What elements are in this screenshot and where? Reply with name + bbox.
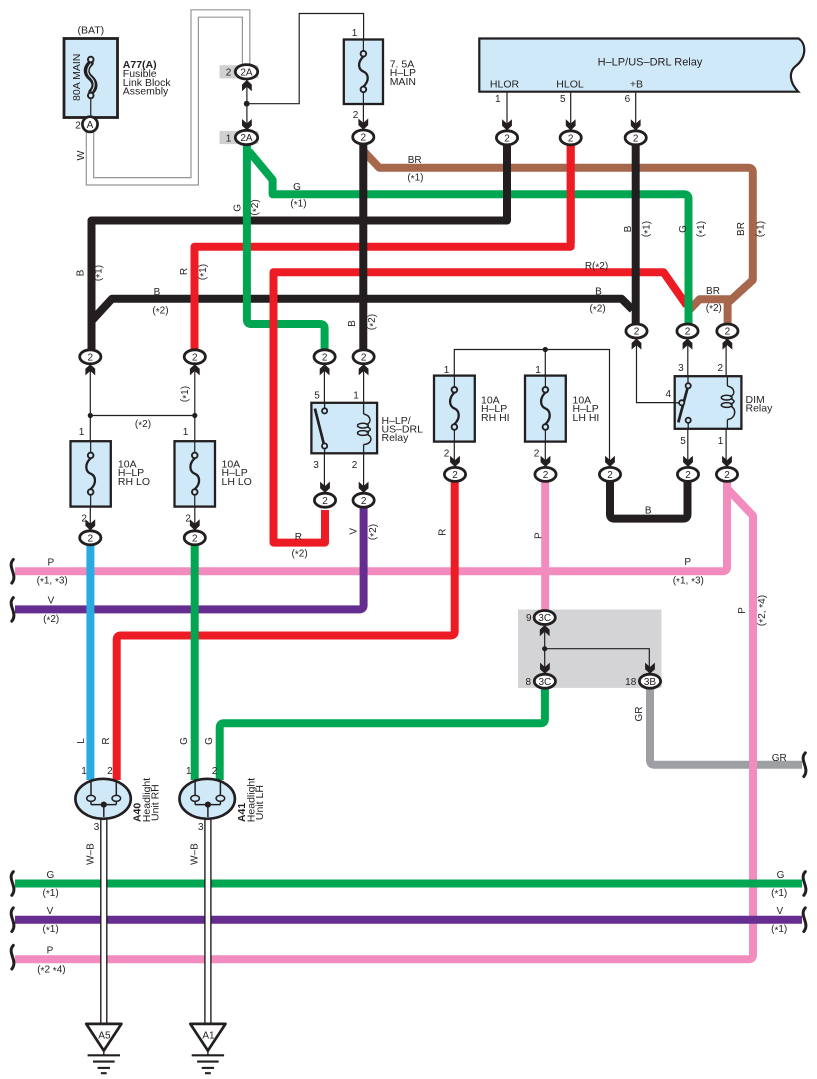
arrow down 18-3B: [645, 663, 655, 674]
svg-text:(*1): (*1): [180, 386, 192, 402]
svg-text:5: 5: [314, 391, 320, 402]
svg-text:GR: GR: [634, 707, 645, 722]
wire DIM relay pin5 lead: [687, 429, 689, 467]
svg-text:B: B: [623, 225, 634, 232]
arrow up relay pin5 col: [320, 364, 330, 375]
svg-text:2: 2: [88, 533, 94, 544]
wire B (*2) branch: [92, 299, 633, 321]
wire L (blue) RH LO to A40 pin1: [86, 544, 94, 780]
svg-text:2: 2: [185, 513, 191, 524]
svg-text:80A MAIN: 80A MAIN: [71, 54, 83, 101]
node HI fuses junction: [543, 347, 548, 352]
svg-text:(*1): (*1): [771, 888, 787, 900]
connector 2 relay pin5: [314, 350, 335, 364]
svg-text:(*2): (*2): [135, 419, 151, 431]
connector 2 +B: [625, 131, 646, 145]
wire V (*2) rail: [15, 505, 364, 609]
svg-text:(*1, *3): (*1, *3): [37, 575, 68, 587]
break G (*1) left: [11, 872, 14, 896]
connector 18-3B: [639, 674, 660, 688]
arrow down relay pin2 out: [359, 482, 369, 493]
svg-text:2: 2: [718, 363, 724, 374]
svg-text:2: 2: [504, 133, 510, 144]
wire G LH LO to A41 pin1: [191, 544, 199, 780]
arrow down DIM pin1: [722, 456, 732, 467]
break P (*2,*4) left: [11, 945, 14, 969]
svg-text:2: 2: [361, 352, 367, 363]
svg-text:B: B: [595, 286, 602, 297]
svg-text:2: 2: [352, 460, 358, 471]
svg-text:(*1): (*1): [641, 221, 653, 237]
connector 2 DIM pin4 feed: [626, 324, 647, 338]
svg-text:MAIN: MAIN: [390, 76, 416, 88]
svg-text:(*1): (*1): [197, 264, 209, 280]
svg-text:2: 2: [322, 352, 328, 363]
wire HI fuses top link: [454, 350, 609, 468]
svg-text:3B: 3B: [644, 677, 657, 688]
svg-text:2: 2: [192, 352, 198, 363]
svg-text:2: 2: [353, 110, 359, 121]
svg-text:1: 1: [444, 365, 450, 376]
svg-text:2: 2: [361, 133, 367, 144]
break V (*1) left: [11, 908, 14, 932]
wire P (*1,*3) rail: [15, 480, 727, 571]
svg-text:BR: BR: [736, 222, 747, 236]
connector 2 relay pin3 out: [314, 493, 335, 507]
svg-text:6: 6: [625, 94, 631, 105]
headlight unit A40 RH: [75, 779, 130, 819]
svg-text:(*1): (*1): [43, 888, 59, 900]
svg-text:2: 2: [568, 133, 574, 144]
arrow down to conn HLOR: [502, 119, 512, 130]
svg-text:1: 1: [186, 766, 192, 777]
wire LH HI fuse pin2 lead: [544, 442, 546, 467]
svg-text:2: 2: [534, 449, 540, 460]
wire BR (*1) main: [364, 152, 753, 328]
svg-text:B: B: [76, 269, 87, 276]
wire W-B headlight RH ground: [100, 810, 107, 1024]
arrow down RH HI out: [450, 456, 460, 467]
wire P (*2,*4) branch: [15, 490, 753, 959]
svg-text:RH HI: RH HI: [481, 412, 510, 424]
node J/B junction: [542, 646, 547, 651]
svg-text:8: 8: [525, 677, 531, 688]
svg-text:A5: A5: [98, 1031, 111, 1042]
svg-text:(*1): (*1): [696, 221, 708, 237]
svg-text:(*1): (*1): [290, 199, 306, 211]
relay block H-LP/US-DRL Relay (top): [479, 39, 804, 92]
arrow down RH LO out: [85, 519, 95, 530]
svg-text:V: V: [47, 906, 54, 917]
wire B HLOR overlay: [503, 140, 511, 217]
connector 2 RH HI out: [444, 467, 465, 481]
svg-text:R: R: [179, 268, 190, 275]
svg-text:V: V: [349, 528, 360, 535]
connector 2A lower: [235, 130, 257, 144]
wire B DIM ground link: [610, 480, 688, 519]
wire R RH HI to A40: [117, 480, 455, 780]
wire DIM relay pin2 lead: [725, 338, 727, 376]
svg-text:Relay: Relay: [382, 432, 410, 444]
svg-text:Unit LH: Unit LH: [254, 785, 266, 820]
svg-text:3: 3: [313, 460, 319, 471]
svg-text:G: G: [678, 225, 689, 233]
arrow down DIM gnd: [605, 456, 615, 467]
svg-text:HLOR: HLOR: [490, 79, 520, 91]
svg-text:3: 3: [94, 822, 100, 833]
svg-text:2: 2: [634, 327, 640, 338]
wire LH LO fuse pin1 lead: [194, 364, 196, 441]
arrow up relay pin1 col: [359, 364, 369, 375]
wire US-DRL relay pin2 lead: [363, 453, 365, 493]
svg-text:(*2): (*2): [367, 314, 379, 330]
svg-text:R: R: [437, 529, 448, 536]
break P (*1,*3) left: [11, 560, 14, 584]
connector 2 relay pin2 out: [353, 493, 374, 507]
arrow up DIM pin3 col: [683, 338, 693, 349]
connector 1-2A label bg: [220, 131, 259, 144]
connector A of A77: [82, 117, 97, 132]
connector 2 HLOR: [496, 131, 517, 145]
svg-text:2: 2: [724, 470, 730, 481]
svg-text:P: P: [533, 532, 544, 539]
node 2A junction: [244, 101, 250, 107]
arrow up to 2A upper: [242, 80, 252, 91]
svg-text:(*2): (*2): [292, 548, 308, 560]
svg-text:1: 1: [352, 28, 358, 39]
wire RH LO fuse pin1 lead: [89, 364, 91, 441]
svg-text:2A: 2A: [240, 133, 253, 144]
wire LH LO fuse pin2 lead: [194, 507, 196, 531]
svg-text:1: 1: [226, 133, 232, 144]
arrow down LH LO out: [190, 519, 200, 530]
connector 2 col RH LO: [80, 350, 101, 364]
svg-text:R(*2): R(*2): [585, 261, 608, 273]
wire relay pin 5 lead: [570, 92, 572, 131]
arrow down to conn 7.5A: [358, 119, 368, 130]
svg-text:1: 1: [353, 391, 359, 402]
svg-text:LH LO: LH LO: [222, 476, 252, 488]
svg-text:G: G: [777, 870, 785, 881]
svg-text:2: 2: [88, 352, 94, 363]
fuse 10A H-LP LH LO: [175, 441, 216, 506]
svg-text:1: 1: [535, 365, 541, 376]
svg-text:(*1): (*1): [43, 924, 59, 936]
svg-text:B: B: [347, 320, 358, 327]
svg-text:(*2, *4): (*2, *4): [756, 595, 768, 626]
arrow up DIM pin4 col: [632, 338, 642, 349]
connector 2 DIM pin1: [716, 467, 737, 481]
wire GR: [650, 687, 802, 765]
svg-text:2: 2: [107, 766, 113, 777]
wire G 8-3C to A41 pin2: [220, 687, 545, 780]
svg-text:W: W: [75, 150, 87, 160]
node LO fuses junction: [88, 413, 93, 418]
junction block J/B (gray box): [518, 610, 662, 688]
arrow down to conn +B: [631, 119, 641, 130]
svg-text:2: 2: [543, 470, 549, 481]
svg-text:4: 4: [666, 389, 672, 400]
connector 2 of 7.5A fuse: [353, 130, 374, 144]
wire DIM relay pin1 lead: [725, 429, 727, 467]
wire R HLOL overlay: [567, 140, 575, 243]
svg-text:H–LP/US–DRL Relay: H–LP/US–DRL Relay: [598, 56, 703, 68]
svg-text:W–B: W–B: [190, 843, 201, 865]
svg-text:2: 2: [685, 327, 691, 338]
svg-text:B: B: [645, 506, 652, 517]
svg-text:RH LO: RH LO: [118, 476, 150, 488]
svg-text:(BAT): (BAT): [77, 25, 104, 37]
svg-text:(*2 *4): (*2 *4): [37, 964, 65, 976]
svg-text:(*1): (*1): [93, 265, 105, 281]
wire US-DRL relay pin5 lead: [323, 364, 325, 403]
wire G (*1) branch: [249, 151, 689, 327]
connector 2 HLOL: [560, 131, 581, 145]
svg-text:Unit RH: Unit RH: [150, 784, 162, 821]
svg-text:G: G: [232, 204, 243, 212]
arrow up RH LO col: [85, 364, 95, 375]
wire US-DRL relay pin1 lead: [363, 364, 365, 403]
svg-text:1: 1: [81, 766, 87, 777]
svg-text:(*1): (*1): [755, 221, 767, 237]
wire W (white) from A77 pin A to connector 2A: [90, 14, 246, 182]
svg-text:W–B: W–B: [86, 843, 97, 865]
wire G (*1) bottom rail: [15, 880, 802, 888]
svg-text:3: 3: [198, 822, 204, 833]
svg-text:P: P: [684, 557, 691, 568]
svg-text:R: R: [101, 737, 112, 744]
svg-text:3C: 3C: [539, 677, 552, 688]
wire relay pin 1 lead: [506, 92, 508, 131]
fuse 10A H-LP LH HI: [525, 376, 566, 442]
svg-text:(*2): (*2): [250, 199, 262, 215]
svg-text:G: G: [293, 182, 301, 193]
wire 7.5A fuse internals: [362, 40, 364, 131]
wire R (*2): [274, 272, 687, 542]
wire node to 7.5A fuse pin 1: [247, 14, 364, 104]
svg-text:3: 3: [678, 363, 684, 374]
arrow down relay pin3 out: [320, 482, 330, 493]
ground A1: [190, 1024, 225, 1051]
connector 2A upper: [235, 65, 257, 79]
wire RH LO fuse pin2 lead: [89, 507, 91, 531]
svg-text:5: 5: [680, 436, 686, 447]
wire DIM relay pin3 lead: [687, 338, 689, 376]
fusible link block A77(A): [64, 39, 118, 118]
wire LO fuses link: [90, 415, 195, 417]
connector 8-3C: [534, 674, 555, 688]
arrow up DIM pin2 col: [723, 338, 733, 349]
arrow down to 2A lower: [242, 119, 252, 130]
wire B (*1) HLOR to RH LO: [92, 140, 508, 352]
svg-text:18: 18: [625, 677, 637, 688]
connector 2 LH LO out: [184, 531, 205, 545]
fuse 10A H-LP RH HI: [434, 376, 475, 442]
headlight unit A41 LH: [180, 779, 235, 819]
connector 2 DIM pin2 feed: [717, 324, 738, 338]
connector 2 DIM gnd: [599, 467, 620, 481]
svg-text:Relay: Relay: [746, 403, 774, 415]
svg-text:2: 2: [226, 68, 232, 79]
break V (*2) left: [11, 598, 14, 622]
break V (*1) right: [803, 908, 806, 932]
svg-text:2: 2: [322, 496, 328, 507]
connector 2-2A label bg: [220, 65, 259, 78]
svg-text:(*1): (*1): [407, 173, 423, 185]
svg-text:HLOL: HLOL: [556, 79, 584, 91]
arrow up LH LO col: [190, 364, 200, 375]
fuse 10A H-LP RH LO: [71, 441, 111, 506]
ground A5: [86, 1024, 121, 1051]
svg-text:(*2): (*2): [590, 304, 606, 316]
svg-text:L: L: [76, 738, 87, 744]
arrow down to conn HLOL: [566, 119, 576, 130]
break GR right: [803, 753, 806, 777]
svg-text:(*1): (*1): [771, 924, 787, 936]
svg-text:G: G: [47, 870, 55, 881]
svg-text:2: 2: [725, 327, 731, 338]
svg-text:LH HI: LH HI: [573, 412, 600, 424]
svg-text:2: 2: [81, 513, 87, 524]
svg-text:Assembly: Assembly: [123, 86, 169, 98]
svg-text:B: B: [154, 287, 161, 298]
svg-text:3C: 3C: [538, 613, 551, 624]
arrow down DIM pin5: [683, 456, 693, 467]
connector 2 DIM pin5: [677, 467, 698, 481]
svg-text:1: 1: [718, 436, 724, 447]
svg-text:2: 2: [192, 533, 198, 544]
relay DIM (switch+coil): [675, 376, 742, 429]
svg-text:BR: BR: [706, 286, 720, 297]
connector 2 RH LO out: [80, 531, 101, 545]
wire R (*2) overlay: [270, 272, 278, 542]
fuse 7.5A H-LP MAIN: [344, 40, 383, 105]
svg-text:+B: +B: [630, 79, 643, 91]
svg-text:1: 1: [495, 94, 501, 105]
wire B +B feed: [632, 140, 640, 327]
relay H-LP/US-DRL (switch+coil): [311, 403, 377, 454]
svg-text:GR: GR: [772, 753, 787, 764]
connector 9-3C: [534, 611, 555, 625]
wire V (*1) bottom rail: [15, 916, 802, 924]
wire P LH HI to 9-3C: [541, 480, 549, 612]
svg-text:(*2): (*2): [706, 303, 722, 315]
connector 2 DIM pin3 feed: [677, 324, 698, 338]
svg-text:9: 9: [526, 613, 532, 624]
svg-text:A1: A1: [202, 1031, 215, 1042]
svg-text:5: 5: [560, 94, 566, 105]
connector 2 relay pin1: [353, 350, 374, 364]
wire US-DRL relay pin3 lead: [323, 453, 325, 493]
break G (*1) right: [803, 872, 806, 896]
svg-text:1: 1: [79, 427, 85, 438]
svg-text:G: G: [179, 737, 190, 745]
wire R (*1) HLOL to LH LO: [195, 140, 571, 352]
svg-text:(*2): (*2): [43, 614, 59, 626]
svg-text:(*2): (*2): [152, 306, 168, 318]
wire G (*2) main: [247, 141, 325, 352]
svg-text:2: 2: [633, 133, 639, 144]
svg-text:V: V: [48, 595, 55, 606]
connector 2 LH HI out: [535, 467, 556, 481]
svg-text:(*2): (*2): [367, 524, 379, 540]
wire DIM relay pin4 lead: [637, 338, 675, 402]
wire RH HI fuse pin2 lead: [453, 442, 455, 467]
arrow down 8-3C: [540, 663, 550, 674]
svg-text:2: 2: [685, 470, 691, 481]
svg-text:(*1, *3): (*1, *3): [673, 575, 704, 587]
svg-text:P: P: [47, 946, 54, 957]
svg-text:G: G: [204, 737, 215, 745]
wire J/B internal link: [545, 625, 650, 675]
svg-text:BR: BR: [408, 155, 422, 166]
svg-text:A: A: [87, 120, 94, 131]
arrow up 9-3C: [540, 625, 550, 636]
svg-text:P: P: [737, 607, 748, 614]
svg-text:1: 1: [183, 427, 189, 438]
wire BR (*2) branch: [689, 299, 731, 310]
svg-text:2A: 2A: [240, 67, 253, 78]
wire 2A link vertical: [246, 79, 248, 131]
svg-text:2: 2: [212, 766, 218, 777]
wire B 7.5A MAIN feed: [359, 140, 367, 352]
svg-text:2: 2: [452, 470, 458, 481]
connector 2 col LH LO: [184, 350, 205, 364]
svg-text:2: 2: [607, 470, 613, 481]
svg-text:2: 2: [444, 449, 450, 460]
svg-text:P: P: [47, 558, 54, 569]
node LO fuses junction LH: [192, 413, 197, 418]
wire W-B headlight LH ground: [204, 810, 211, 1024]
svg-text:R: R: [295, 532, 302, 543]
svg-text:V: V: [776, 906, 783, 917]
arrow down LH HI out: [541, 456, 551, 467]
svg-text:2: 2: [361, 496, 367, 507]
svg-text:2: 2: [75, 120, 81, 131]
wire relay pin 6 lead: [635, 92, 637, 131]
